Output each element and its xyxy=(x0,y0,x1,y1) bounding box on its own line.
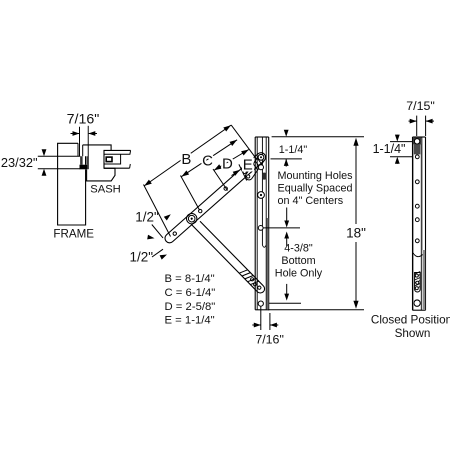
mounting hole pointer arrows xyxy=(286,208,288,222)
track holes xyxy=(172,231,177,236)
svg-text:1-1/4": 1-1/4" xyxy=(279,144,308,156)
closed hinge bar xyxy=(412,137,414,310)
closed bar hatched bracket xyxy=(415,272,421,293)
dimension 18" line xyxy=(355,141,357,224)
pivot rivet at channel top xyxy=(258,154,264,160)
svg-text:C: C xyxy=(202,152,213,169)
closed bar bottom hole xyxy=(414,300,420,306)
dimension 7/16" (left) arrows xyxy=(71,133,80,135)
closed bar dark block xyxy=(414,145,421,155)
dimension 1/2" upper tick xyxy=(152,225,163,238)
svg-text:18": 18" xyxy=(346,226,366,241)
support arm xyxy=(191,218,266,294)
svg-text:Mounting Holes: Mounting Holes xyxy=(278,170,354,182)
channel mounting hole xyxy=(258,226,263,231)
witness line at pivot xyxy=(231,125,256,159)
svg-text:23/32": 23/32" xyxy=(1,155,38,170)
sash clip rails xyxy=(80,156,82,164)
dimension 1/2" upper arrows xyxy=(164,214,171,220)
svg-text:7/16": 7/16" xyxy=(255,332,284,346)
witness line C hole xyxy=(181,176,200,211)
svg-text:1/2": 1/2" xyxy=(135,210,159,225)
svg-text:C = 6-1/4": C = 6-1/4" xyxy=(165,287,216,299)
sash profile top edge xyxy=(83,145,111,151)
channel rivet mid xyxy=(258,192,265,199)
svg-text:7/16": 7/16" xyxy=(67,112,100,128)
channel top witness line (18") xyxy=(272,136,364,138)
svg-text:4-3/8": 4-3/8" xyxy=(284,242,313,254)
svg-text:Hole Only: Hole Only xyxy=(275,267,323,279)
channel bottom witness line (18") xyxy=(268,309,364,311)
bottom hole pointer arrow xyxy=(286,284,288,294)
svg-text:1-1/4": 1-1/4" xyxy=(373,142,406,156)
channel hole 2 xyxy=(259,165,264,170)
witness line D hole xyxy=(213,169,228,191)
hinge pivot block (black) xyxy=(80,165,88,170)
svg-text:B = 8-1/4": B = 8-1/4" xyxy=(165,273,215,285)
sash lower body xyxy=(87,168,115,181)
dimension 1-1/4" (right) arrows xyxy=(396,134,398,136)
frame cross-section outline xyxy=(58,143,86,225)
top pivot bracket (hatched) xyxy=(244,156,264,181)
svg-text:on 4" Centers: on 4" Centers xyxy=(278,195,344,207)
dimension C arrow xyxy=(182,140,238,177)
dimension 7/16" (left) extension lines xyxy=(79,127,81,157)
svg-text:B: B xyxy=(181,151,191,168)
track arm (open) xyxy=(163,150,268,245)
witness line E xyxy=(239,164,247,180)
svg-text:1/2": 1/2" xyxy=(130,249,154,264)
svg-text:Bottom: Bottom xyxy=(281,255,315,267)
svg-text:D: D xyxy=(222,156,233,173)
channel gray edge strip xyxy=(267,218,269,309)
channel rib xyxy=(261,137,263,245)
closed bar arc detail xyxy=(413,253,423,257)
dimension 23/32" extension lines xyxy=(38,155,80,157)
svg-text:E: E xyxy=(243,157,253,174)
dimension E arrow xyxy=(232,171,239,176)
dimension 23/32" arrows xyxy=(42,149,47,156)
svg-text:Closed Position: Closed Position xyxy=(371,313,450,326)
witness line track end xyxy=(144,185,171,237)
dimension 7/15" extension lines xyxy=(416,116,418,136)
dimension 7/16" (bottom) arrows xyxy=(252,324,260,326)
dimension 7/15" arrows xyxy=(409,120,417,122)
dimension B arrow xyxy=(144,125,231,186)
svg-text:D = 2-5/8": D = 2-5/8" xyxy=(165,301,216,313)
svg-text:7/15": 7/15" xyxy=(406,99,435,113)
svg-text:E = 1-1/4": E = 1-1/4" xyxy=(165,315,215,327)
closed bar holes xyxy=(415,155,419,159)
closed bar top pivot block xyxy=(413,137,421,144)
jamb channel (middle, open position) xyxy=(254,137,256,310)
sash hinge channel body xyxy=(104,150,131,168)
svg-text:Equally Spaced: Equally Spaced xyxy=(278,183,353,195)
channel bottom hole xyxy=(258,301,263,306)
dimension 7/16" (bottom) extension lines xyxy=(260,306,262,330)
svg-text:SASH: SASH xyxy=(90,184,120,196)
track rivet and arm cap xyxy=(184,211,199,226)
bracket small hole xyxy=(247,175,250,178)
dimension 1/2" lower leader xyxy=(152,249,163,257)
svg-text:Shown: Shown xyxy=(395,327,431,340)
channel keeper (dark) xyxy=(262,173,266,180)
dimension D arrow xyxy=(214,150,249,171)
svg-text:FRAME: FRAME xyxy=(53,228,94,241)
closed bar gray strip xyxy=(423,250,426,310)
dimension 1-1/4" (right) lines xyxy=(390,141,412,143)
dimension 1-1/4" (middle) arrows xyxy=(284,130,289,137)
sash channel screw hole xyxy=(106,157,112,162)
support arm lower bracket (hatched) xyxy=(257,286,266,295)
